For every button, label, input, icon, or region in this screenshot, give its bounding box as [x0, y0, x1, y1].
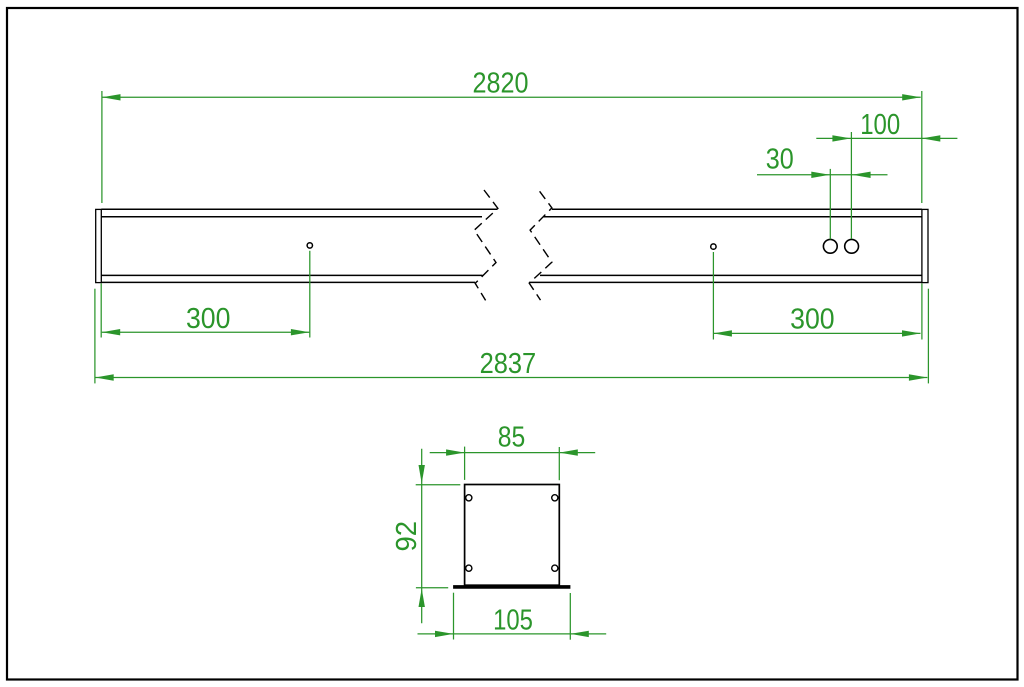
- dimension 300 left: [101, 251, 310, 338]
- svg-text:85: 85: [498, 422, 526, 454]
- svg-text:100: 100: [860, 109, 900, 141]
- svg-text:30: 30: [766, 144, 794, 176]
- dimension 300 right: [713, 252, 922, 340]
- large hole B: [845, 239, 859, 253]
- dimension 105: [418, 593, 607, 640]
- svg-text:105: 105: [493, 605, 533, 637]
- beam right segment outlines: [529, 209, 922, 282]
- section view: square tube: [465, 485, 560, 586]
- dimension 85: [430, 447, 596, 481]
- beam left segment outlines: [101, 209, 497, 282]
- beam side view: left end cap: [96, 209, 102, 282]
- dimension 92: [416, 449, 461, 624]
- small hole right: [711, 244, 716, 249]
- svg-text:300: 300: [186, 303, 231, 335]
- dimension 2837: [95, 289, 929, 384]
- large hole A: [823, 239, 837, 253]
- svg-text:2837: 2837: [480, 348, 537, 380]
- section hole top-left: [466, 495, 472, 501]
- dimension 100: [816, 132, 957, 239]
- section hole bottom-left: [466, 565, 472, 571]
- svg-text:300: 300: [790, 303, 835, 335]
- section view: base flange plate: [453, 585, 570, 589]
- break line right (dashed zigzag): [529, 191, 552, 300]
- small hole left: [307, 243, 312, 248]
- svg-text:92: 92: [391, 521, 423, 552]
- dimension 30: [757, 169, 888, 240]
- section hole top-right: [552, 495, 558, 501]
- dimension 2820: [102, 91, 922, 203]
- beam side view: right end cap: [922, 209, 928, 282]
- section hole bottom-right: [552, 565, 558, 571]
- break line left (dashed zigzag): [474, 190, 498, 300]
- svg-text:2820: 2820: [473, 68, 529, 100]
